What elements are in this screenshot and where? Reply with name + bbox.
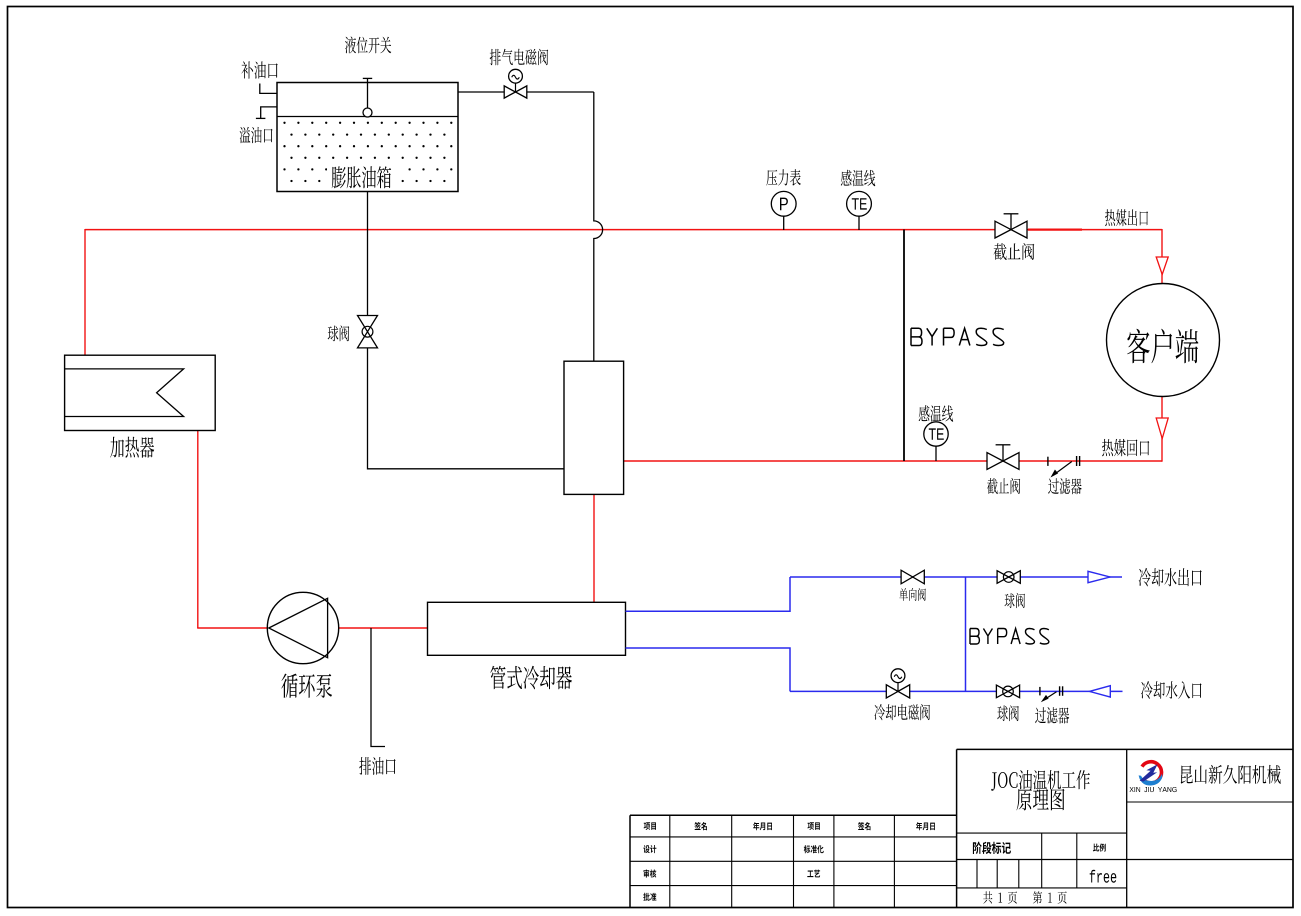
wire: red supply main (top) <box>85 229 1162 231</box>
temperature sensor TE2 <box>924 422 948 446</box>
wire: red pump suction <box>197 627 268 629</box>
circulation pump impeller <box>269 598 328 657</box>
wire: red drop to client <box>1161 229 1163 284</box>
label 球阀 water out <box>1005 593 1025 608</box>
cooling solenoid valve body <box>886 685 898 698</box>
ball valve V4 body <box>997 571 1009 584</box>
wire: red client to return line <box>1161 397 1163 462</box>
wire: red HX to client return (bottom) <box>623 460 1162 462</box>
label 感温线 mid <box>919 405 953 421</box>
wire: ball valve to HX <box>368 348 565 469</box>
expansion tank body <box>277 83 458 192</box>
stop valve V3 handle <box>1002 445 1004 461</box>
title block: main frame <box>957 748 1293 750</box>
wire: oil drain line <box>371 628 385 747</box>
wire: red pump discharge to cooler <box>338 627 428 629</box>
check valve body <box>901 570 913 584</box>
table header 签名1 <box>695 822 708 830</box>
label 液位开关 <box>345 37 391 54</box>
wire: blue inlet main <box>790 690 1123 692</box>
filter F1 double tick <box>1076 456 1078 466</box>
exhaust solenoid valve body <box>504 86 515 98</box>
tube cooler box <box>428 602 626 655</box>
label 冷却水入口 <box>1141 681 1202 699</box>
overflow port stub <box>261 107 277 119</box>
label 排气电磁阀 <box>490 49 549 65</box>
label 球阀 left <box>328 325 350 341</box>
label 加热器 <box>110 437 154 458</box>
ball valve V1 body <box>358 316 378 332</box>
TE2 letters <box>929 428 944 439</box>
ball valve V4 ball <box>1003 572 1014 583</box>
temperature sensor TE2 stub <box>935 446 937 461</box>
water outlet arrow <box>1088 571 1110 582</box>
label 感温线 top <box>841 170 875 186</box>
label 截止阀 top <box>994 243 1035 260</box>
temperature sensor TE1 stub <box>858 216 860 230</box>
label 膨胀油箱 <box>332 166 391 188</box>
heater element <box>65 369 184 417</box>
label 热媒回口 <box>1102 439 1149 456</box>
table header 年月日1 <box>753 822 772 830</box>
stop valve V2 handle <box>1010 214 1012 230</box>
table cell 标准化 <box>804 845 824 853</box>
wire: red HX bottom to cooler top <box>593 494 595 603</box>
filter F1 leader <box>1054 462 1072 476</box>
cell free <box>1090 870 1117 883</box>
cell 阶段标记 <box>973 842 1011 854</box>
wire: exhaust valve to riser <box>527 91 594 93</box>
label BYPASS bottom <box>970 629 1049 645</box>
level switch <box>367 78 369 108</box>
stop valve V2 body <box>995 221 1011 238</box>
label 补油口 <box>242 61 278 78</box>
circulation pump circle <box>267 592 338 663</box>
heat exchanger box <box>564 361 624 494</box>
wire: blue cooler out to riser <box>626 577 791 611</box>
cell 比例 <box>1093 844 1106 852</box>
wire: tank bottom drop <box>367 192 369 316</box>
flow arrow out of client <box>1156 418 1168 439</box>
table cell 批准 <box>643 893 656 901</box>
cooling solenoid actuator <box>897 683 899 691</box>
pressure gauge P stub <box>783 216 785 230</box>
label 球阀 water in <box>997 705 1019 721</box>
pressure gauge P <box>771 191 796 216</box>
label 冷却水出口 <box>1139 568 1202 587</box>
wire: blue BYPASS vertical <box>965 577 967 691</box>
label 冷却电磁阀 <box>874 704 930 720</box>
table header 项目2 <box>808 822 820 830</box>
label 溢油口 <box>240 127 273 143</box>
exhaust solenoid actuator <box>515 83 517 92</box>
tank label backing <box>327 164 401 190</box>
table header 签名2 <box>858 822 871 830</box>
label 截止阀 bottom <box>987 478 1020 494</box>
label 客户端 <box>1127 329 1198 364</box>
title block: signature table grid <box>630 814 957 816</box>
flow arrow into client <box>1156 257 1168 275</box>
expansion tank oil dots <box>283 122 285 124</box>
title text line1 <box>991 770 1090 791</box>
expansion tank oil level line <box>277 116 458 118</box>
wire: riser down with jump over red line <box>594 92 603 361</box>
label 压力表 <box>766 169 800 186</box>
label 排油口 <box>359 757 395 775</box>
wire: red heavy segment after stop valve <box>1028 229 1082 231</box>
label 过滤器 top <box>1048 478 1081 494</box>
table cell 设计 <box>643 845 656 853</box>
filter F2 leader <box>1045 692 1057 700</box>
table cell 工艺 <box>807 870 820 878</box>
client load circle <box>1107 284 1220 397</box>
wire: red left riser to heater <box>84 229 86 356</box>
table header 年月日2 <box>916 822 935 830</box>
filter F2 tick <box>1039 687 1041 696</box>
temperature sensor TE1 <box>847 191 872 216</box>
label 热媒出口 <box>1105 209 1148 226</box>
stop valve V3 body <box>987 453 1003 470</box>
company name <box>1181 765 1281 784</box>
label 单向阀 <box>899 588 926 601</box>
wire: BYPASS vertical (hot side) <box>903 230 905 462</box>
label 管式冷却器 <box>490 666 572 690</box>
filter F1 tick <box>1047 457 1049 466</box>
water inlet arrow <box>1090 686 1111 697</box>
wire: blue cooler in lower <box>626 648 791 691</box>
logo: xin jiu yang swoosh <box>1142 762 1162 783</box>
title text line2 <box>1017 788 1065 810</box>
wire: tank outlet to exhaust valve <box>458 91 504 93</box>
ball valve V5 ball <box>1003 686 1014 697</box>
table header 项目1 <box>644 822 656 830</box>
table cell 审核 <box>644 869 657 877</box>
cell page count 共1页 第1页 <box>983 891 1066 904</box>
label 循环泵 <box>281 674 332 698</box>
ball valve V5 body <box>996 685 1008 698</box>
ball valve V1 ball <box>362 326 373 337</box>
logo caption XIN JIU YANG <box>1130 787 1177 792</box>
wire: red heater outlet down <box>197 431 199 629</box>
fill port stub <box>260 84 277 94</box>
label BYPASS top <box>911 328 1004 345</box>
pressure gauge letter <box>780 198 788 211</box>
label 过滤器 bottom <box>1035 707 1069 723</box>
wire: blue outlet main <box>790 576 1122 578</box>
filter F2 double tick <box>1059 686 1061 696</box>
heater box <box>65 355 216 430</box>
TE1 letters <box>852 198 867 209</box>
